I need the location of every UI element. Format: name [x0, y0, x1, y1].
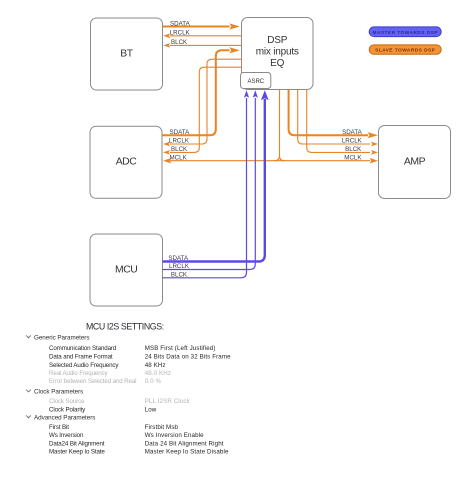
- svg-text:Selected Audio Frequency: Selected Audio Frequency: [49, 362, 119, 369]
- svg-text:BLCK: BLCK: [171, 146, 188, 153]
- svg-text:Clock Parameters: Clock Parameters: [34, 389, 83, 396]
- section advanced parameters: [26, 416, 31, 418]
- svg-text:Master Keep Io State: Master Keep Io State: [49, 449, 105, 456]
- svg-text:MCLK: MCLK: [344, 154, 362, 161]
- section generic parameters: [26, 336, 31, 338]
- svg-text:MASTER TOWARDS DSP: MASTER TOWARDS DSP: [373, 30, 439, 36]
- svg-text:Clock Polarity: Clock Polarity: [49, 406, 86, 413]
- arrow BLCK into ADC: [163, 150, 170, 155]
- svg-text:Error between Selected and Rea: Error between Selected and Real: [49, 378, 136, 385]
- svg-text:Ws Inversion: Ws Inversion: [49, 432, 84, 439]
- svg-text:24 Bits Data on 32 Bits Frame: 24 Bits Data on 32 Bits Frame: [145, 354, 231, 361]
- arrow MCU BLCK into ASRC: [244, 90, 249, 98]
- arrow MCU LRCLK into ASRC: [253, 90, 258, 98]
- arrow ADC SDATA into DSP: [229, 47, 240, 53]
- block AMP: [379, 126, 451, 199]
- block MCU: [90, 234, 163, 306]
- arrow MCU SDATA into ASRC: [261, 90, 269, 100]
- wire DSP BLCK to AMP: [307, 90, 370, 153]
- block ASRC: [241, 73, 271, 89]
- svg-text:ASRC: ASRC: [247, 79, 264, 85]
- svg-text:Advanced Parameters: Advanced Parameters: [34, 414, 95, 421]
- wire DSP LRCLK to AMP: [298, 90, 370, 145]
- wire MCU BLCK to ASRC: [163, 98, 247, 278]
- svg-text:BT: BT: [120, 48, 133, 59]
- svg-text:48 KHz: 48 KHz: [145, 362, 166, 369]
- wire BT SDATA to DSP: [163, 26, 230, 28]
- svg-text:Clock Source: Clock Source: [49, 398, 85, 405]
- svg-text:LRCLK: LRCLK: [169, 263, 190, 270]
- arrow BLCK into BT: [163, 43, 170, 48]
- svg-text:mix inputs: mix inputs: [256, 47, 299, 58]
- svg-text:SDATA: SDATA: [170, 20, 191, 27]
- legend master towards dsp: [369, 27, 441, 37]
- svg-text:ADC: ADC: [116, 157, 138, 168]
- svg-text:Firstbit Msb: Firstbit Msb: [145, 424, 179, 431]
- wire DSP BLCK to ADC: [170, 67, 242, 152]
- wire DSP BLCK to BT: [170, 44, 242, 46]
- svg-text:Real Audio Frequency: Real Audio Frequency: [49, 370, 109, 377]
- svg-text:Master Keep Io State Disable: Master Keep Io State Disable: [145, 449, 229, 456]
- arrow MCLK into AMP: [370, 158, 378, 164]
- svg-text:Communication Standard: Communication Standard: [49, 345, 117, 352]
- svg-text:Data24 Bit Alignment: Data24 Bit Alignment: [49, 440, 105, 447]
- svg-text:BLCK: BLCK: [171, 272, 188, 279]
- wire MCU LRCLK to ASRC: [163, 98, 256, 270]
- svg-text:LRCLK: LRCLK: [169, 138, 190, 145]
- wire DSP MCLK vertical drop: [275, 90, 285, 161]
- wire ADC SDATA to DSP: [162, 50, 230, 135]
- wire MCU SDATA to ASRC: [163, 99, 265, 262]
- svg-text:Data 24 Bit Alignment Right: Data 24 Bit Alignment Right: [145, 440, 224, 447]
- svg-text:BLCK: BLCK: [345, 146, 362, 153]
- svg-text:Ws Inversion Enable: Ws Inversion Enable: [145, 432, 204, 439]
- svg-text:Low: Low: [145, 406, 157, 413]
- svg-text:BLCK: BLCK: [171, 39, 188, 46]
- arrow LRCLK into BT: [163, 33, 170, 38]
- arrow MCLK into ADC: [163, 158, 171, 164]
- wire DSP LRCLK to BT: [170, 35, 242, 37]
- svg-text:Data and Frame Format: Data and Frame Format: [49, 354, 113, 361]
- svg-text:PLL I2SR Clock: PLL I2SR Clock: [145, 398, 191, 405]
- arrow LRCLK into AMP: [371, 142, 378, 147]
- arrow SDATA into AMP: [368, 132, 379, 138]
- block BT: [91, 18, 163, 90]
- svg-text:SDATA: SDATA: [170, 129, 191, 136]
- wire DSP LRCLK to ADC: [170, 59, 242, 144]
- svg-text:0.0 %: 0.0 %: [145, 378, 162, 385]
- svg-text:DSP: DSP: [267, 35, 287, 46]
- wire MCLK bus ADC to AMP: [170, 160, 370, 162]
- svg-text:48.0 KHz: 48.0 KHz: [145, 370, 171, 377]
- legend slave towards dsp: [369, 45, 441, 54]
- svg-text:Generic Parameters: Generic Parameters: [34, 334, 89, 341]
- arrow BT SDATA into DSP: [229, 23, 240, 29]
- svg-text:MCLK: MCLK: [170, 154, 188, 161]
- svg-text:AMP: AMP: [404, 156, 426, 167]
- block ADC: [90, 126, 162, 198]
- svg-text:SDATA: SDATA: [168, 255, 189, 262]
- arrow LRCLK into ADC: [163, 142, 170, 147]
- svg-text:SLAVE TOWARDS DSP: SLAVE TOWARDS DSP: [375, 48, 436, 54]
- svg-text:EQ: EQ: [270, 58, 284, 69]
- svg-text:First Bit: First Bit: [49, 424, 69, 431]
- svg-text:LRCLK: LRCLK: [170, 30, 191, 37]
- section clock parameters: [26, 390, 31, 392]
- svg-text:MCU: MCU: [115, 264, 137, 275]
- svg-text:LRCLK: LRCLK: [342, 138, 363, 145]
- block DSP: [242, 18, 314, 90]
- svg-text:SDATA: SDATA: [342, 129, 363, 136]
- svg-text:MSB First (Left Justified): MSB First (Left Justified): [145, 345, 216, 352]
- wire DSP SDATA to AMP: [289, 90, 368, 136]
- arrow BLCK into AMP: [371, 150, 378, 155]
- svg-text:MCU I2S SETTINGS:: MCU I2S SETTINGS:: [86, 322, 164, 332]
